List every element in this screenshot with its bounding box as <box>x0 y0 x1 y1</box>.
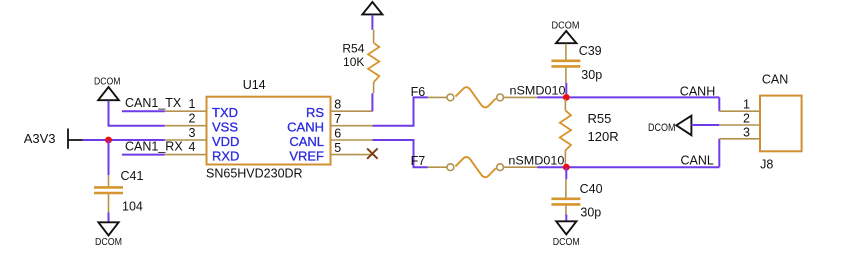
ground DCOM (above C39) <box>552 20 580 43</box>
svg-text:5: 5 <box>334 141 341 155</box>
svg-text:6: 6 <box>334 127 341 141</box>
svg-text:A3V3: A3V3 <box>24 131 56 146</box>
pin 8 RS <box>306 98 373 121</box>
svg-text:DCOM: DCOM <box>648 122 676 134</box>
wire R54 to RS pin 8 <box>371 93 373 111</box>
svg-text:2: 2 <box>189 111 196 125</box>
wire A3V3 to junction <box>83 139 109 141</box>
power symbol (top of R54) <box>362 2 382 14</box>
svg-text:104: 104 <box>122 200 143 214</box>
svg-text:3: 3 <box>743 125 750 139</box>
wire CANH node to J8 riser <box>566 96 719 98</box>
pin 4 RXD <box>165 140 240 163</box>
pin 3 VDD <box>165 126 240 149</box>
svg-text:VREF: VREF <box>289 148 324 163</box>
svg-text:DCOM: DCOM <box>94 76 121 87</box>
ground DCOM (below C41) <box>95 222 122 248</box>
svg-text:8: 8 <box>334 98 341 112</box>
wire junction down to C41 <box>108 140 110 175</box>
capacitor C41 <box>94 169 143 214</box>
svg-text:CAN1_RX: CAN1_RX <box>125 140 183 154</box>
svg-text:2: 2 <box>743 112 750 126</box>
pin 1 of J8 <box>719 98 760 112</box>
pin 5 VREF <box>289 141 372 164</box>
wire CANL node to J8 riser <box>566 166 719 168</box>
svg-text:nSMD010: nSMD010 <box>508 154 564 168</box>
node CANL junction <box>563 164 570 171</box>
svg-text:C41: C41 <box>121 169 144 183</box>
svg-text:10K: 10K <box>343 55 364 69</box>
ground DCOM (J8 pin 2, left-pointing) <box>648 116 691 136</box>
svg-text:U14: U14 <box>243 78 266 92</box>
connector J8 body <box>760 73 802 172</box>
wire F6 to CANH node <box>537 96 566 98</box>
wire C41 to ground <box>108 212 110 222</box>
svg-text:DCOM: DCOM <box>552 20 580 31</box>
svg-text:4: 4 <box>189 140 196 154</box>
ground DCOM (top-left) <box>94 76 121 100</box>
svg-text:R54: R54 <box>342 42 364 56</box>
capacitor C40 <box>551 179 602 220</box>
node A3V3 junction <box>105 137 112 144</box>
svg-text:F6: F6 <box>411 85 426 99</box>
pin 2 VSS <box>165 111 239 134</box>
wire junction to VDD pin 3 <box>109 139 165 141</box>
ground DCOM (below C40) <box>553 221 580 248</box>
wire CANH riser to J8 pin 1 <box>718 97 720 111</box>
fuse F6 <box>428 87 538 107</box>
pin 1 TXD <box>165 97 238 120</box>
svg-text:DCOM: DCOM <box>553 237 580 248</box>
svg-text:CAN: CAN <box>762 73 788 87</box>
svg-text:RS: RS <box>306 105 324 120</box>
svg-text:CANH: CANH <box>680 85 715 99</box>
svg-text:1: 1 <box>743 98 750 112</box>
svg-text:RXD: RXD <box>212 148 239 163</box>
svg-text:nSMD010: nSMD010 <box>510 84 566 98</box>
wire CANH pin 7 to F6 <box>373 97 428 125</box>
svg-text:TXD: TXD <box>212 105 238 120</box>
svg-text:C40: C40 <box>580 182 603 196</box>
svg-text:120R: 120R <box>588 129 619 144</box>
svg-text:C39: C39 <box>579 44 602 58</box>
node CANH junction <box>563 94 570 101</box>
IC U14 SN65HVD230DR body <box>206 78 331 180</box>
resistor R54 <box>342 30 379 93</box>
svg-text:7: 7 <box>334 112 341 126</box>
wire CANL pin 6 to F7 <box>373 140 428 167</box>
wire CAN1_TX to pin 1 <box>122 110 165 112</box>
wire DCOM to VSS pin 2 <box>109 101 165 126</box>
wire CAN1_RX to pin 4 <box>122 154 165 156</box>
pin 7 CANH <box>287 112 372 135</box>
power port A3V3 <box>24 129 83 149</box>
svg-text:F7: F7 <box>411 154 426 168</box>
svg-text:CANH: CANH <box>287 120 324 135</box>
capacitor C39 <box>551 44 602 83</box>
svg-text:3: 3 <box>189 126 196 140</box>
pin 2 of J8 <box>719 112 760 126</box>
svg-text:VDD: VDD <box>212 134 239 149</box>
no-connect X on pin 5 <box>367 148 378 158</box>
svg-text:VSS: VSS <box>212 120 238 135</box>
svg-text:R55: R55 <box>588 111 612 126</box>
svg-text:SN65HVD230DR: SN65HVD230DR <box>206 166 303 180</box>
wire C40 to ground <box>565 215 567 222</box>
svg-text:30p: 30p <box>580 206 601 220</box>
pin 6 CANL <box>289 127 372 149</box>
svg-text:30p: 30p <box>581 68 602 82</box>
wire power to R54 <box>371 15 373 30</box>
wire CANL node down to C40 <box>565 167 567 179</box>
svg-text:CANL: CANL <box>289 134 324 149</box>
pin 3 of J8 <box>719 125 760 139</box>
wire DCOM to J8 pin 2 <box>691 124 719 126</box>
wire F7 to CANL node <box>537 166 566 168</box>
svg-text:J8: J8 <box>760 158 773 172</box>
resistor R55 <box>560 99 619 166</box>
fuse F7 <box>428 157 538 177</box>
svg-text:DCOM: DCOM <box>95 237 122 248</box>
wire C39 to CANH node <box>565 83 567 98</box>
svg-text:CANL: CANL <box>681 153 714 167</box>
svg-text:1: 1 <box>189 97 196 111</box>
wire CANL riser to J8 pin 3 <box>718 139 720 167</box>
svg-text:CAN1_TX: CAN1_TX <box>125 96 182 110</box>
